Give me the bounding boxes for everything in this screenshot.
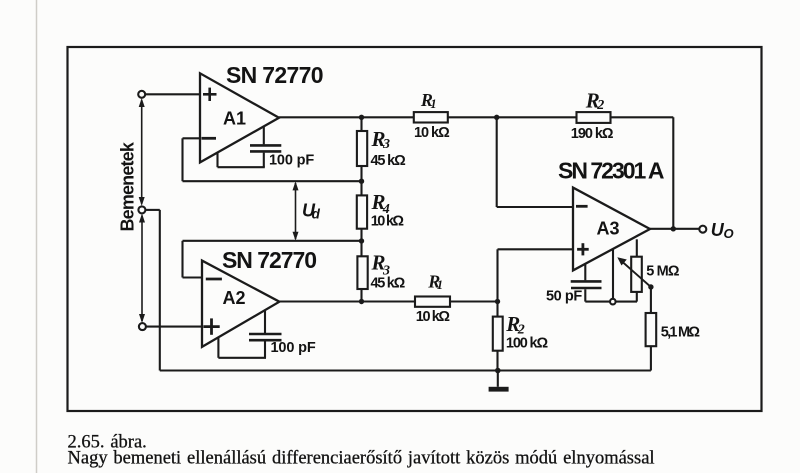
capacitor C2 100 pF (A2 compensation) xyxy=(218,311,281,358)
op-amp A1 xyxy=(200,73,279,162)
A3 plus pin mark xyxy=(577,243,589,255)
svg-text:Nagy bemeneti ellenállású diff: Nagy bemeneti ellenállású differenciaerő… xyxy=(68,449,655,469)
resistor 5.1 MOhm xyxy=(646,287,657,371)
resistor R2 100 kOhm xyxy=(493,302,503,371)
svg-text:SN 72770: SN 72770 xyxy=(226,62,324,88)
label A3 xyxy=(597,219,620,239)
svg-text:5,1 MΩ: 5,1 MΩ xyxy=(661,325,701,341)
svg-text:10 kΩ: 10 kΩ xyxy=(416,309,451,325)
label SN 72770 (A1) xyxy=(226,62,324,88)
ground rail wire xyxy=(160,369,651,371)
value label 45 kOhm (upper) xyxy=(371,153,407,169)
node A1out/R3 xyxy=(359,115,364,120)
op-amp A3 xyxy=(573,188,650,271)
label Uo xyxy=(711,220,734,241)
svg-text:100 pF: 100 pF xyxy=(271,340,316,356)
node R1/R2/A3- xyxy=(494,115,499,120)
value label 10 kOhm (upper R1) xyxy=(414,125,450,141)
svg-text:1: 1 xyxy=(430,97,436,111)
value label 10 kOhm (R4) xyxy=(371,214,405,230)
resistor R3 45 kOhm (lower) xyxy=(357,241,367,302)
A2 plus pin mark xyxy=(203,318,219,334)
svg-text:10 kΩ: 10 kΩ xyxy=(371,214,405,230)
node R3/R4 junction xyxy=(359,179,364,184)
svg-text:45 kΩ: 45 kΩ xyxy=(371,275,406,291)
svg-text:O: O xyxy=(724,226,734,241)
A1 plus pin mark xyxy=(203,88,217,101)
label R4 xyxy=(371,190,390,217)
wire A3 minus input xyxy=(497,117,573,207)
node R1/R2/A3+ xyxy=(495,299,500,304)
svg-text:100 pF: 100 pF xyxy=(269,153,314,169)
A3 minus pin mark xyxy=(576,205,588,208)
svg-text:100 kΩ: 100 kΩ xyxy=(506,335,549,351)
label R3 (upper) xyxy=(371,127,391,152)
resistor R2 190 kOhm (feedback) xyxy=(577,112,674,229)
wire A2 minus feedback xyxy=(183,241,362,278)
value label 190 kOhm xyxy=(571,126,614,142)
label R1 (lower) xyxy=(427,271,443,292)
value label 100 kOhm xyxy=(506,335,549,351)
svg-text:3: 3 xyxy=(382,137,390,152)
node wiper/5.1M xyxy=(648,284,653,289)
value label 100 pF (A1) xyxy=(269,153,314,169)
svg-text:10 kΩ: 10 kΩ xyxy=(414,125,450,141)
node output/feedback xyxy=(671,226,676,231)
label A2 xyxy=(223,288,246,308)
value label 50 pF xyxy=(546,289,582,305)
svg-text:A3: A3 xyxy=(597,219,620,239)
label R2 (190k) xyxy=(585,89,605,113)
node R4/R3 lower junction xyxy=(359,238,364,243)
svg-text:50 pF: 50 pF xyxy=(546,289,582,305)
svg-text:SN 72770: SN 72770 xyxy=(222,247,317,273)
svg-text:190 kΩ: 190 kΩ xyxy=(571,126,614,142)
value label 45 kOhm (lower) xyxy=(371,275,406,291)
svg-text:Bemenetek: Bemenetek xyxy=(118,141,138,231)
dimension arrow input2-input3 xyxy=(139,214,145,324)
A2 minus pin mark xyxy=(206,278,222,281)
resistor R3 45 kOhm (upper) xyxy=(357,117,367,181)
svg-text:A1: A1 xyxy=(223,109,246,129)
value label 5 MOhm xyxy=(646,264,680,280)
output terminal Uo xyxy=(699,226,706,233)
wire A1 minus feedback xyxy=(183,138,362,181)
wire A3 plus input xyxy=(498,249,574,301)
svg-text:A2: A2 xyxy=(223,288,246,308)
label SN 72301 A xyxy=(558,158,665,184)
capacitor C1 100 pF (A1 compensation) xyxy=(218,127,282,168)
label A1 xyxy=(223,109,246,129)
svg-text:45 kΩ: 45 kΩ xyxy=(371,153,407,169)
wire A1 output xyxy=(279,116,414,118)
value label 100 pF (A2) xyxy=(271,340,316,356)
label SN 72770 (A2) xyxy=(222,247,317,273)
label R1 (upper) xyxy=(420,90,437,111)
label Ud xyxy=(302,200,321,221)
svg-text:SN 72301 A: SN 72301 A xyxy=(558,158,665,184)
wire input1 to A1 + xyxy=(145,93,200,95)
wire input2 to ground rail xyxy=(146,210,160,371)
value label 5,1 MOhm xyxy=(661,325,701,341)
label R3 (lower) xyxy=(371,251,391,279)
svg-text:1: 1 xyxy=(437,278,443,292)
potentiometer 5 MOhm xyxy=(631,239,642,301)
input terminal 1 xyxy=(138,91,145,98)
balance terminal xyxy=(610,299,616,305)
resistor R4 10 kOhm xyxy=(357,181,367,241)
svg-text:5 MΩ: 5 MΩ xyxy=(646,264,680,280)
resistor R1 10 kOhm (upper) xyxy=(414,112,577,122)
resistor R1 10 kOhm (lower) xyxy=(415,297,498,307)
label R2 (100k) xyxy=(505,312,525,338)
op-amp A2 xyxy=(202,261,279,347)
capacitor C3 50 pF (A3 compensation) xyxy=(571,264,637,302)
potentiometer wiper arrow xyxy=(617,257,651,287)
value label 10 kOhm (lower R1) xyxy=(416,309,451,325)
scan page margin line xyxy=(36,0,38,473)
dimension arrow input1-input2 xyxy=(139,98,145,206)
label Bemenetek xyxy=(118,141,138,231)
dimension arrow Ud xyxy=(293,181,299,240)
wire A2 output xyxy=(279,300,415,302)
node ground rail / R2 xyxy=(495,368,501,374)
svg-text:2: 2 xyxy=(596,98,604,113)
svg-text:d: d xyxy=(312,207,321,222)
input terminal 2 xyxy=(138,206,145,213)
A1 minus pin mark xyxy=(202,137,217,140)
wire input3 to A2 + xyxy=(146,326,202,328)
node A2out/R3 xyxy=(359,299,364,304)
wire A3 output xyxy=(650,228,699,230)
ground xyxy=(489,371,509,392)
input terminal 3 xyxy=(139,323,146,330)
balance pin wire A3 xyxy=(612,250,614,302)
